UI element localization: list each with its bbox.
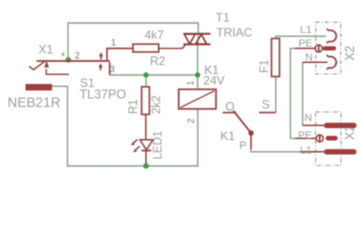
svg-text:PE: PE <box>299 38 313 50</box>
svg-text:R1: R1 <box>128 99 140 114</box>
svg-text:+: + <box>61 50 66 60</box>
svg-text:S: S <box>262 97 270 111</box>
svg-text:O: O <box>225 99 234 113</box>
svg-text:2: 2 <box>186 118 196 123</box>
svg-text:PE: PE <box>298 129 312 141</box>
svg-text:L1: L1 <box>300 145 312 157</box>
svg-text:N: N <box>305 112 313 124</box>
svg-text:R2: R2 <box>150 54 166 68</box>
svg-text:NEB21R: NEB21R <box>8 95 61 110</box>
svg-text:X1: X1 <box>39 43 54 57</box>
svg-text:1: 1 <box>186 80 196 85</box>
svg-text:LED1: LED1 <box>153 131 165 160</box>
svg-text:2k2: 2k2 <box>151 95 163 114</box>
svg-text:F1: F1 <box>259 60 271 73</box>
svg-text:P: P <box>239 140 246 152</box>
svg-text:1: 1 <box>111 37 116 47</box>
svg-text:TRIAC: TRIAC <box>216 25 252 39</box>
svg-text:4k7: 4k7 <box>145 28 165 42</box>
svg-text:K1: K1 <box>220 129 235 143</box>
svg-text:X2: X2 <box>343 45 357 60</box>
svg-text:TL37PO: TL37PO <box>80 88 127 102</box>
svg-text:2: 2 <box>75 50 80 60</box>
svg-text:L1: L1 <box>300 24 312 36</box>
svg-text:3: 3 <box>110 64 115 74</box>
svg-text:N: N <box>305 51 313 63</box>
svg-text:24V: 24V <box>203 73 224 87</box>
svg-text:T1: T1 <box>216 11 230 25</box>
